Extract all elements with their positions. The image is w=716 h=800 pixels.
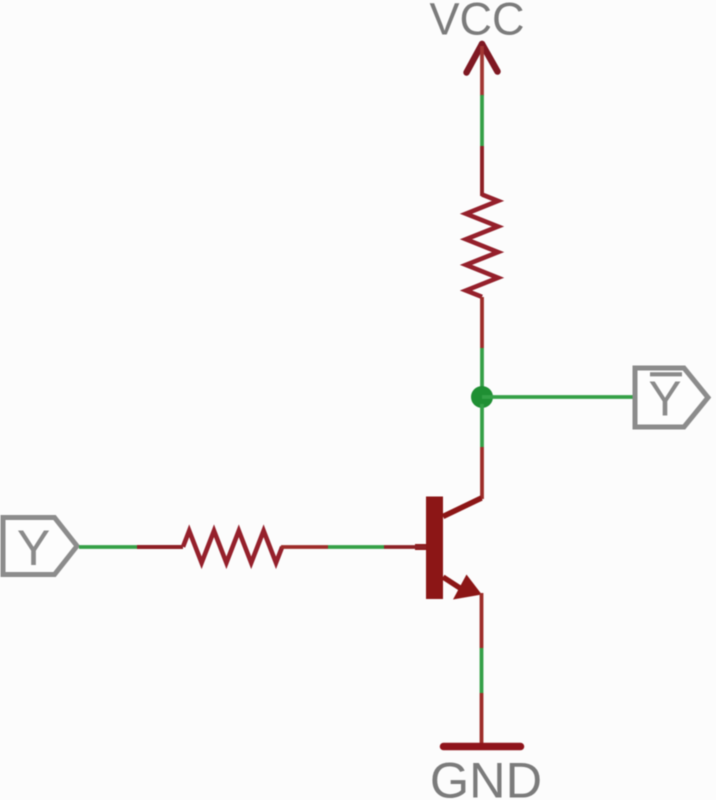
wire input green segment from flag bbox=[79, 545, 137, 549]
power symbol VCC arrow bbox=[467, 44, 498, 73]
svg-text:Y: Y bbox=[17, 520, 50, 576]
wire red segment below R1 bbox=[480, 297, 484, 348]
svg-text:Y: Y bbox=[648, 371, 681, 426]
wire red segment above R1 bbox=[480, 146, 484, 196]
wire green segment above GND bbox=[480, 648, 484, 693]
svg-text:GND: GND bbox=[430, 752, 542, 800]
transistor Q1 emitter lead bbox=[443, 577, 463, 590]
wire red segment to collector bbox=[480, 447, 484, 499]
wire red segment after R2 bbox=[281, 545, 328, 549]
svg-text:VCC: VCC bbox=[429, 0, 524, 45]
transistor Q1 base bar bbox=[426, 497, 443, 600]
wire red segment to GND bbox=[480, 693, 484, 745]
output flag overbar bbox=[650, 372, 682, 376]
output flag /Y outline bbox=[635, 368, 708, 427]
wire VCC red segment bbox=[480, 46, 484, 96]
transistor Q1 base stub bbox=[415, 544, 427, 550]
ground symbol bar bbox=[444, 743, 521, 751]
input flag Y outline bbox=[3, 518, 77, 575]
resistor R2 (base resistor) bbox=[183, 531, 282, 563]
resistor R1 (collector pull-up) bbox=[466, 195, 498, 297]
wire red segment below emitter bbox=[480, 593, 484, 648]
transistor Q1 emitter arrow bbox=[453, 575, 482, 600]
wire output horizontal green bbox=[482, 395, 634, 399]
transistor Q1 collector lead bbox=[443, 498, 482, 517]
wire green segment above node bbox=[480, 348, 484, 390]
node junction (output node) bbox=[471, 386, 493, 408]
wire green segment below node bbox=[480, 404, 484, 447]
wire red segment to base bbox=[384, 545, 426, 549]
wire VCC green segment bbox=[480, 95, 484, 146]
wire green segment mid base bbox=[328, 545, 384, 549]
wire input red segment before R2 bbox=[137, 545, 183, 549]
